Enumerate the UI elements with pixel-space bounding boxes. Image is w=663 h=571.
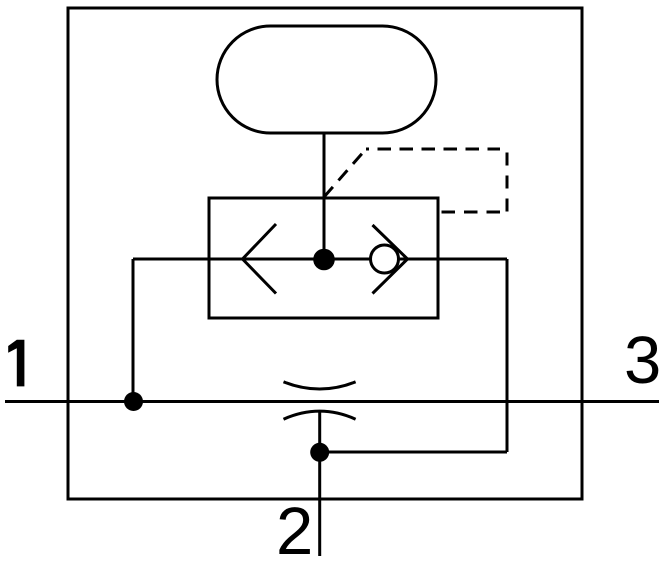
wire main flow line: [133, 258, 507, 261]
flow arrow left: [243, 224, 277, 294]
node valve center: [313, 249, 335, 271]
pilot line dashed bottom return: [442, 211, 503, 214]
pilot line dashed top run: [366, 148, 500, 151]
check valve circle: [371, 245, 399, 273]
wire right branch: [506, 259, 509, 452]
valve body box: [209, 198, 438, 318]
node port 2 junction: [310, 443, 329, 462]
pilot line dashed: [324, 149, 366, 197]
node port 1 junction: [124, 392, 143, 411]
wire left branch: [132, 259, 135, 402]
pilot actuator oval: [217, 26, 436, 133]
wire nozzle stem: [318, 412, 321, 453]
nozzle lower arc: [284, 411, 356, 419]
port label 1: [8, 340, 24, 387]
enclosure box: [68, 8, 582, 499]
wire port 1-3 line: [5, 400, 659, 403]
check valve seat arrow: [373, 225, 408, 294]
port label 2: [276, 498, 313, 565]
nozzle upper arc: [284, 382, 356, 389]
wire bottom branch: [320, 451, 507, 454]
wire port 2 stub: [318, 452, 321, 556]
port label 3: [624, 327, 661, 394]
pilot line dashed right drop: [506, 153, 509, 213]
wire pilot stem: [323, 133, 326, 260]
